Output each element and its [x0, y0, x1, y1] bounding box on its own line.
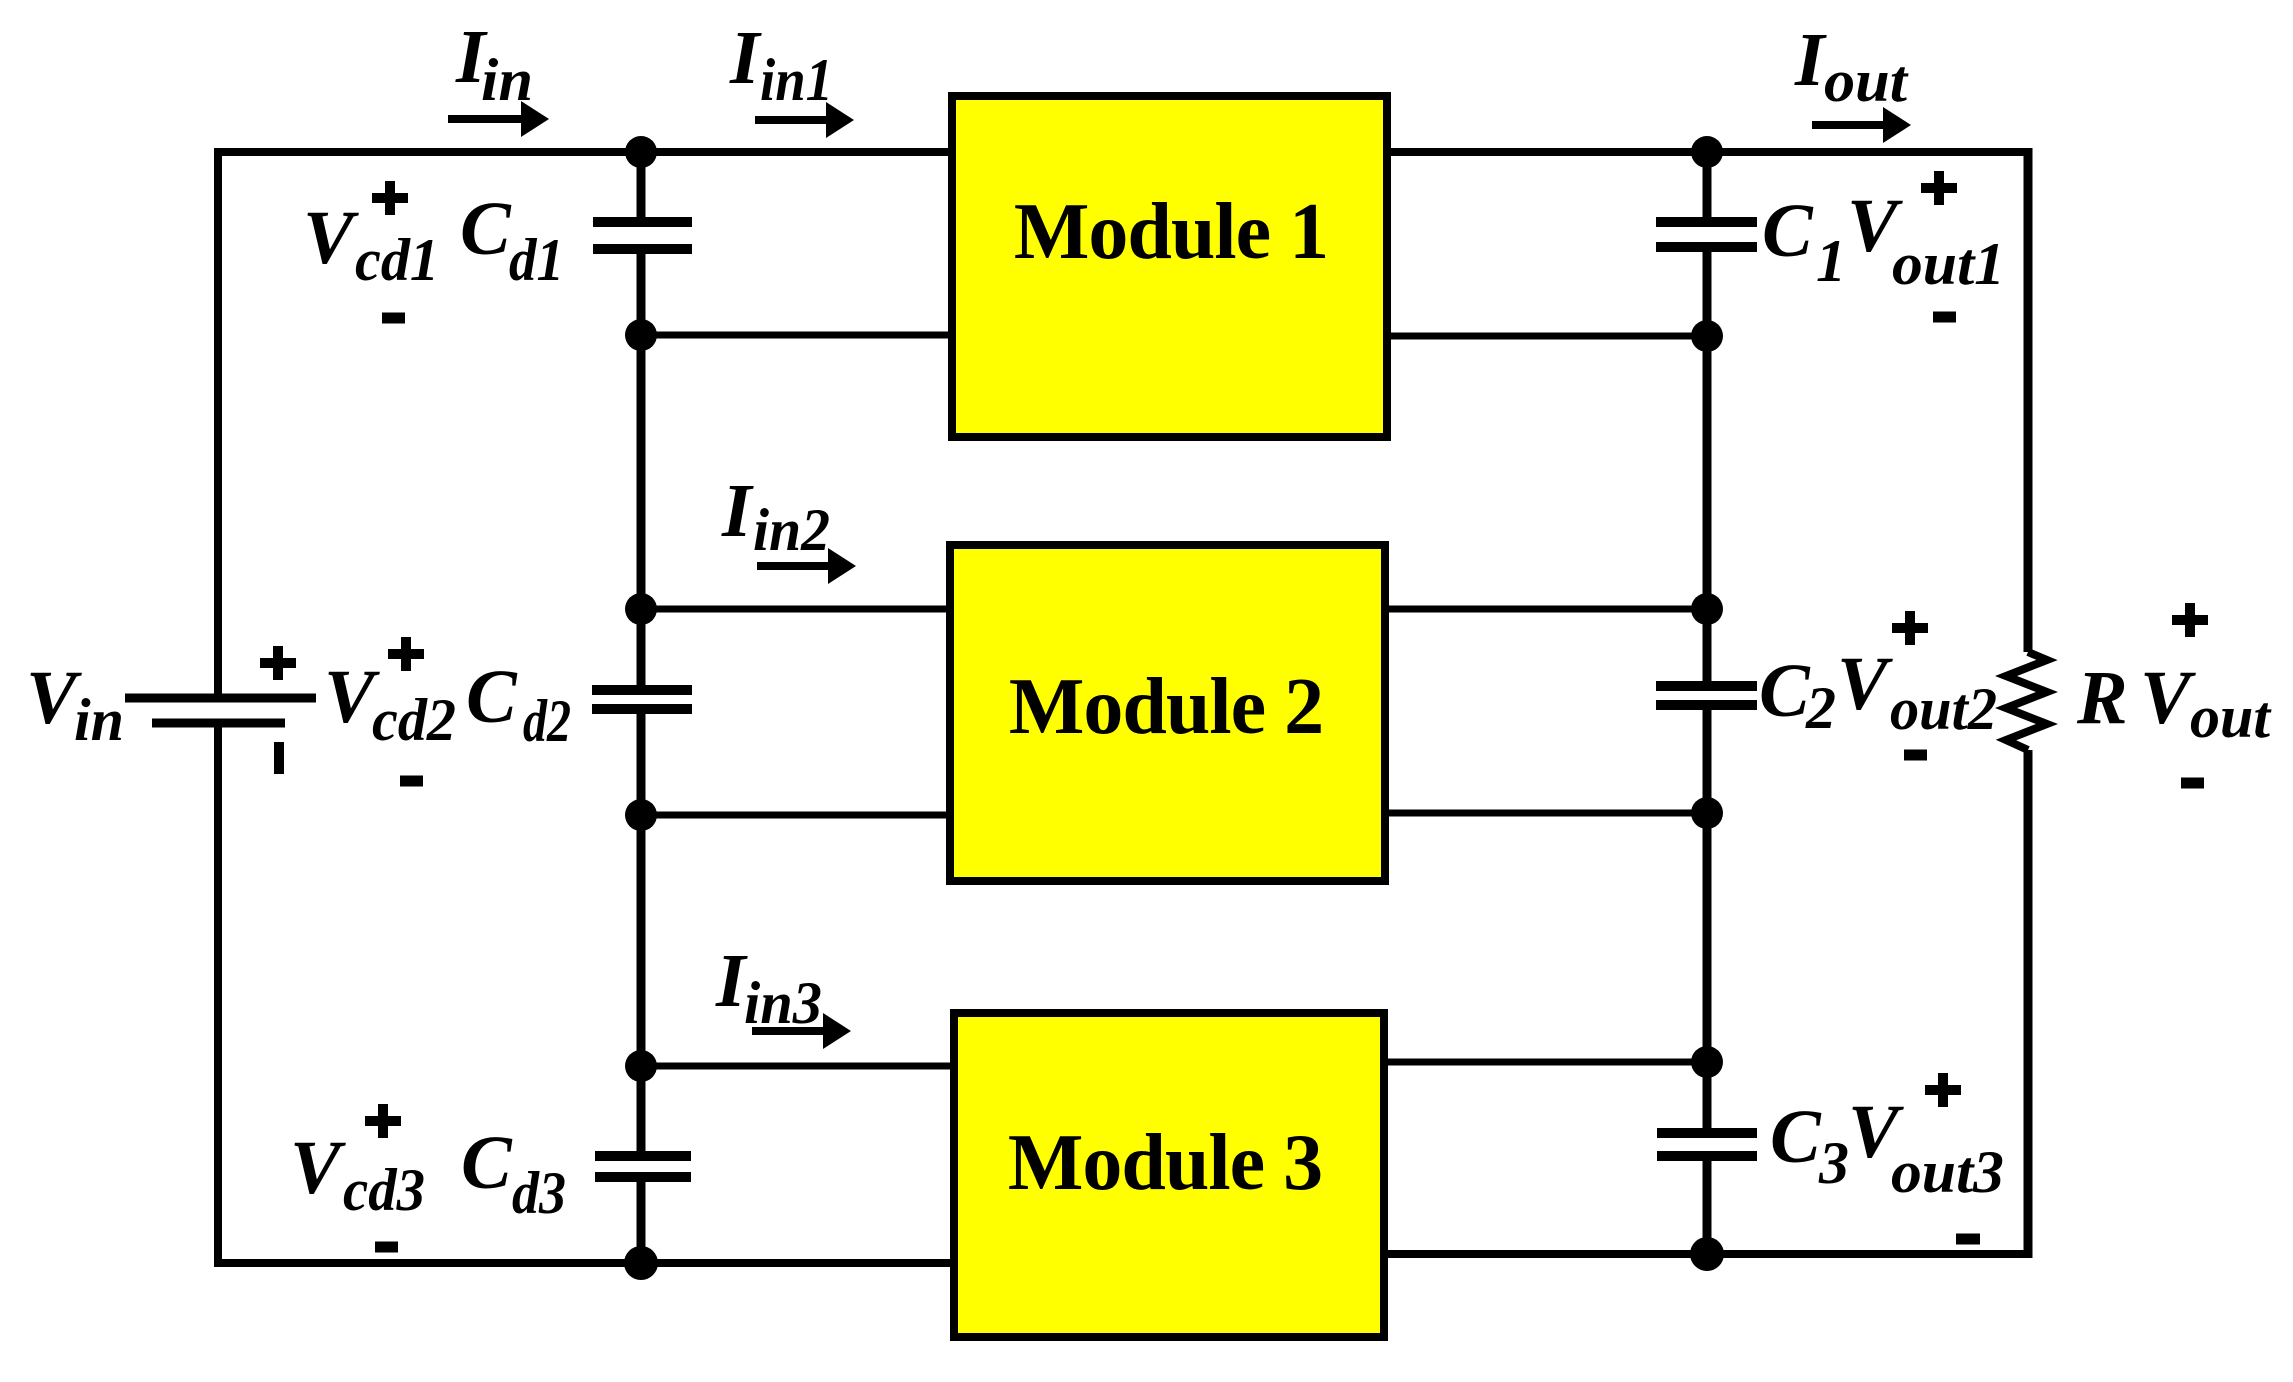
svg-text:Module 2: Module 2 — [1009, 663, 1323, 751]
svg-text:cd1: cd1 — [355, 227, 439, 293]
capacitor Cd3 — [595, 1156, 691, 1177]
label Vout2 — [1837, 642, 1997, 742]
node A5 junction dot module3 upper input — [625, 1050, 657, 1082]
wire middle input rail seg1 — [637, 152, 646, 219]
label Iout with arrow — [1794, 18, 1911, 143]
label Iin with arrow — [448, 15, 549, 137]
wire module1 lower input — [641, 332, 956, 339]
voltage source Vin battery — [125, 698, 316, 723]
svg-text:Module 3: Module 3 — [1008, 1119, 1322, 1207]
node B1 junction dot output rail top — [1691, 136, 1723, 168]
node A4 junction dot module2 lower input — [625, 799, 657, 831]
node B5 junction dot module3 upper output — [1691, 1046, 1723, 1078]
capacitor C1 — [1656, 222, 1757, 247]
node B6 junction dot output rail bottom — [1690, 1237, 1724, 1271]
svg-text:I: I — [729, 16, 762, 100]
wire module1 lower output — [1383, 333, 1707, 340]
node A1 junction dot input rail top — [625, 136, 657, 168]
svg-text:V: V — [303, 196, 359, 280]
label Cd2 — [466, 655, 571, 754]
label Vout — [2140, 656, 2272, 750]
wire middle input rail seg3 — [637, 713, 646, 1153]
label Vout3 minus — [1956, 1234, 1980, 1245]
node A2 junction dot module1 lower input — [625, 319, 657, 351]
wire module2 lower output — [1381, 810, 1707, 817]
svg-text:3: 3 — [1818, 1130, 1849, 1196]
wire right outer vertical upper — [2024, 148, 2033, 652]
svg-text:R: R — [2076, 656, 2128, 740]
node A3 junction dot module2 upper input — [625, 593, 657, 625]
label Vout plus — [2172, 603, 2208, 637]
node B2 junction dot module1 lower output — [1691, 320, 1723, 352]
wire left outer vertical lower — [214, 723, 222, 1267]
wire module3 upper input — [641, 1063, 958, 1070]
label Vout1 — [1847, 184, 2005, 297]
label C3 — [1770, 1095, 1849, 1196]
svg-text:out2: out2 — [1890, 676, 1997, 742]
wire middle input rail seg2 — [637, 252, 646, 687]
wire top bus left segment — [214, 148, 956, 156]
svg-text:in: in — [74, 687, 124, 753]
wire right output rail seg4 — [1703, 1159, 1712, 1254]
module 1 box — [952, 96, 1387, 437]
svg-text:V: V — [290, 1126, 346, 1210]
svg-text:C: C — [1770, 1095, 1822, 1179]
wire module3 upper output — [1380, 1059, 1707, 1066]
svg-text:C: C — [1762, 189, 1814, 273]
label Vcd1 plus — [372, 181, 408, 215]
label Iin1 with arrow — [729, 16, 854, 138]
node B3 junction dot module2 upper output — [1691, 593, 1723, 625]
svg-text:d2: d2 — [523, 688, 571, 754]
svg-text:in1: in1 — [760, 47, 833, 113]
label Vout3 — [1848, 1090, 2004, 1205]
label C2 Vout2 plus — [1892, 611, 1928, 645]
label Vcd2 — [324, 655, 456, 753]
label Vout1 minus — [1933, 312, 1956, 323]
svg-text:out: out — [1824, 48, 1909, 114]
wire bottom bus left segment — [214, 1259, 958, 1267]
svg-text:V: V — [2140, 656, 2196, 740]
label Vcd2 minus — [400, 776, 423, 787]
svg-text:2: 2 — [1805, 675, 1836, 741]
label Cd3 — [461, 1121, 566, 1226]
svg-text:out: out — [2190, 684, 2272, 750]
battery plus sign — [260, 646, 296, 680]
label Iin3 with arrow — [715, 939, 851, 1049]
label Iin2 with arrow — [721, 469, 856, 584]
wire right output rail seg3 — [1703, 708, 1712, 1130]
label Vcd1 — [303, 196, 439, 293]
resistor R zigzag body — [2006, 652, 2047, 750]
capacitor C2 — [1656, 686, 1757, 705]
label Vcd3 — [290, 1126, 425, 1223]
svg-text:C: C — [461, 1121, 513, 1205]
svg-text:out1: out1 — [1892, 231, 2005, 297]
svg-text:C: C — [1759, 649, 1811, 733]
label Vcd2 plus — [388, 637, 424, 671]
label Vout minus — [2181, 778, 2204, 789]
wire module2 upper input — [641, 606, 954, 613]
module 3 box — [954, 1013, 1384, 1337]
svg-text:C: C — [466, 655, 518, 739]
svg-text:in2: in2 — [753, 497, 830, 563]
label C1 Vout1 plus — [1921, 171, 1957, 205]
svg-text:in: in — [481, 47, 533, 113]
svg-text:out3: out3 — [1891, 1139, 2004, 1205]
label Vcd3 plus — [365, 1104, 401, 1138]
wire right output rail seg2 — [1703, 250, 1712, 683]
svg-text:in3: in3 — [744, 970, 822, 1036]
capacitor C3 — [1657, 1133, 1757, 1156]
svg-text:C: C — [460, 187, 512, 271]
label Vin — [26, 656, 124, 753]
svg-text:Module 1: Module 1 — [1014, 188, 1328, 276]
module 2 box — [950, 545, 1385, 881]
wire bottom bus right segment — [1384, 1250, 2032, 1258]
svg-text:I: I — [1794, 18, 1827, 102]
svg-text:V: V — [1837, 642, 1893, 726]
svg-text:I: I — [721, 469, 754, 553]
node A6 junction dot input rail bottom — [624, 1246, 658, 1280]
svg-text:cd3: cd3 — [343, 1157, 425, 1223]
battery minus tick — [274, 742, 284, 774]
node B4 junction dot module2 lower output — [1691, 797, 1723, 829]
label C1 — [1762, 189, 1846, 294]
capacitor Cd2 — [592, 690, 692, 709]
wire right output rail seg1 — [1703, 152, 1712, 219]
label Vout2 minus — [1904, 750, 1927, 761]
wire left outer vertical upper — [214, 148, 222, 698]
svg-text:1: 1 — [1816, 228, 1846, 294]
wire module2 upper output — [1381, 606, 1707, 613]
svg-text:d3: d3 — [512, 1160, 566, 1226]
capacitor Cd1 — [593, 222, 692, 249]
label Cd1 — [460, 187, 564, 293]
wire middle input rail seg4 — [637, 1180, 646, 1263]
svg-text:cd2: cd2 — [372, 687, 456, 753]
label C3 Vout3 plus — [1925, 1073, 1961, 1107]
label Vcd1 minus — [382, 313, 405, 324]
wire right outer vertical lower — [2024, 750, 2033, 1258]
label C2 — [1759, 649, 1836, 741]
label Vcd3 minus — [375, 1242, 398, 1253]
wire module2 lower input — [641, 812, 954, 819]
svg-text:d1: d1 — [509, 227, 564, 293]
wire top bus right segment — [1383, 148, 2032, 156]
